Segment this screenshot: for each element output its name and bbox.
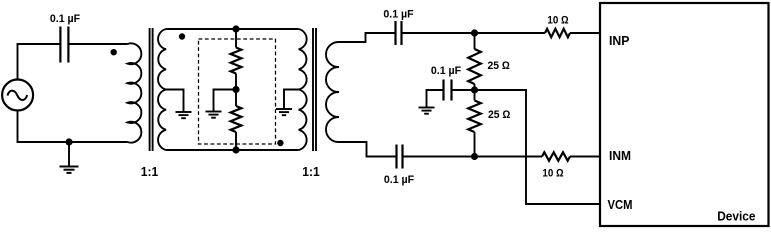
svg-text:0.1 µF: 0.1 µF <box>431 65 462 77</box>
wire R2 to bottom rail <box>235 132 237 150</box>
node INP branch junction <box>471 30 477 36</box>
wire C2 to R3 <box>402 32 546 34</box>
capacitor C4 0.1uF (VCM bypass) <box>444 80 452 101</box>
phase dot T1 secondary <box>179 34 184 39</box>
svg-text:0.1 µF: 0.1 µF <box>383 9 414 21</box>
AC source V1 <box>2 80 33 111</box>
svg-text:1:1: 1:1 <box>141 165 159 179</box>
svg-text:10 Ω: 10 Ω <box>547 14 569 26</box>
capacitor C2 0.1uF (top right) <box>396 21 402 45</box>
svg-text:VCM: VCM <box>608 198 633 212</box>
node top rail junction <box>233 26 239 32</box>
wire R1 to center node <box>235 74 237 107</box>
ground (T2 primary tap) <box>276 108 292 110</box>
wire R6 to device INM <box>570 156 600 158</box>
transformer T2 core <box>313 28 316 151</box>
resistor R6 10 ohm (INM) <box>542 152 570 160</box>
resistor R4 25 ohm (upper) <box>468 49 481 84</box>
wire INP junction to R4 <box>474 33 476 49</box>
wire R3 to device INP <box>570 32 600 34</box>
node INM branch junction <box>471 153 477 159</box>
svg-text:10 Ω: 10 Ω <box>542 168 564 180</box>
wire top-left: source to C1 <box>18 44 61 80</box>
svg-text:25 Ω: 25 Ω <box>488 109 511 121</box>
transformer T1 core <box>150 28 153 151</box>
transformer T2 secondary winding <box>326 42 339 142</box>
capacitor C1 0.1uF (top left) <box>60 27 68 63</box>
svg-text:1:1: 1:1 <box>302 165 320 179</box>
wire R5 to bottom rail <box>474 132 476 157</box>
svg-text:INM: INM <box>609 149 631 163</box>
dashed network box <box>199 39 276 144</box>
svg-text:0.1 µF: 0.1 µF <box>50 13 81 25</box>
svg-text:25 Ω: 25 Ω <box>488 60 511 72</box>
transformer T1 primary winding <box>128 43 142 142</box>
wire VCM node to C4 <box>452 89 475 91</box>
node junction bottom-left <box>66 139 72 145</box>
wire C4 to ground <box>427 90 444 108</box>
transformer T1 secondary winding <box>158 29 166 150</box>
wire T1 secondary center tap <box>166 90 184 113</box>
device box U1 <box>600 3 769 226</box>
resistor R3 10 ohm (INP) <box>545 29 570 37</box>
ground (T1 secondary tap) <box>176 111 192 113</box>
wire top rail to R1 <box>235 29 237 48</box>
phase dot T2 primary <box>278 140 283 145</box>
wire R4 to VCM node <box>474 84 476 101</box>
node center of divider <box>233 86 239 92</box>
ground (C4) <box>419 107 435 109</box>
node VCM divider center <box>471 87 477 93</box>
wire top rail between transformers <box>166 28 299 30</box>
transformer T2 primary winding <box>299 29 307 150</box>
svg-text:INP: INP <box>609 34 630 48</box>
resistor R5 25 ohm (lower) <box>468 101 481 133</box>
wire T2 primary center tap <box>284 90 299 110</box>
wire center node tap to ground <box>214 90 237 112</box>
wire T2 secondary top to C2 <box>339 33 396 42</box>
ground (bottom left) <box>60 142 79 173</box>
wire bottom rail between transformers <box>166 149 299 151</box>
wire VCM node to device VCM <box>475 90 600 204</box>
wire C3 to R6 <box>403 156 543 158</box>
capacitor C3 0.1uF (bottom right) <box>397 145 403 169</box>
wire source bottom to ground rail <box>18 110 128 142</box>
ground (divider center, in dashed box) <box>206 111 222 113</box>
wire C1 to T1 primary <box>68 43 127 45</box>
wire T2 secondary bottom to C3 <box>339 142 397 157</box>
svg-text:Device: Device <box>717 210 755 224</box>
resistor R2 (lower, in dashed box) <box>231 106 242 132</box>
resistor R1 (upper, in dashed box) <box>231 48 242 74</box>
node bottom rail junction <box>233 147 239 153</box>
svg-text:0.1 µF: 0.1 µF <box>384 174 415 186</box>
phase dot T1 primary <box>111 50 116 55</box>
